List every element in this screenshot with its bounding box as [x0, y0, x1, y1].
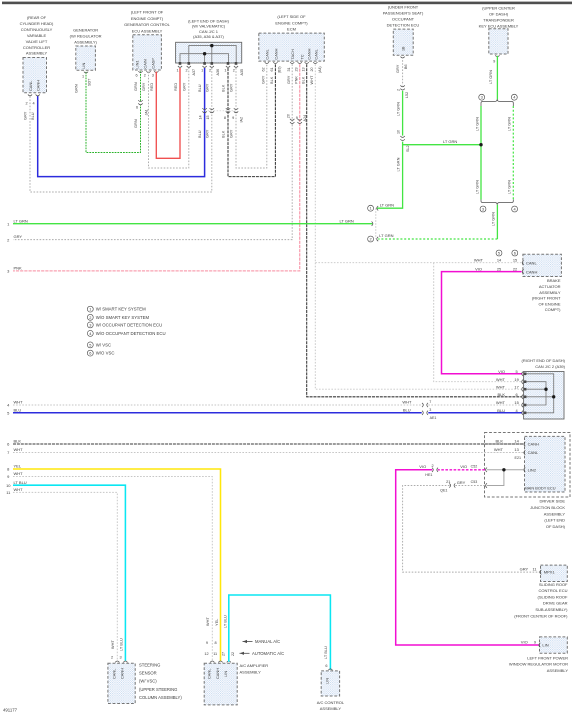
AC amp pin label CANH [215, 668, 220, 679]
GCE pin number 2 [144, 74, 146, 78]
svg-text:9: 9 [206, 641, 208, 645]
svg-text:MAIN BODY ECU: MAIN BODY ECU [524, 485, 555, 490]
wire WHT branch to brake actuator CANL [315, 262, 521, 264]
sliding roof pin connector [540, 570, 542, 574]
MBE pin label CANH [528, 442, 539, 447]
wire BLK ECM 13 to CAN J/C2 pin 6 [307, 64, 523, 397]
connector name IA2 [239, 117, 243, 123]
wire LIN2 internal [487, 470, 524, 486]
svg-text:W/ SMART KEY SYSTEM: W/ SMART KEY SYSTEM [96, 307, 146, 312]
svg-text:GRY: GRY [457, 480, 466, 485]
svg-text:9: 9 [232, 116, 234, 120]
svg-text:(UPPER CENTER: (UPPER CENTER [482, 6, 515, 11]
wire GRN generator LIN to GCE LIN1 [86, 71, 141, 152]
circled 3 ladder bottom left [480, 206, 486, 212]
wire 2 label GRY [14, 234, 23, 239]
svg-text:TACH: TACH [290, 49, 295, 59]
wire LT GRN ladder merge down [496, 205, 498, 239]
AC amp pin number 11 [213, 652, 217, 656]
label WHT steering [110, 640, 115, 649]
svg-text:(LEFT SIDE OF: (LEFT SIDE OF [277, 14, 306, 19]
svg-text:W/O VSC: W/O VSC [96, 351, 115, 356]
diagram number [3, 708, 18, 713]
wire LT GRN ladder right dashed [512, 106, 514, 200]
ODECU pin label [402, 46, 406, 51]
wire 1 end connector [372, 222, 373, 226]
label LT GRN ODECU lower [395, 157, 400, 171]
window regulator motor box [540, 637, 568, 653]
svg-text:CANH: CANH [120, 668, 125, 679]
svg-text:GENERATOR: GENERATOR [73, 28, 98, 33]
circled 1 variant [368, 205, 374, 211]
svg-text:A37: A37 [192, 69, 196, 76]
wire 9 WHT [13, 477, 212, 662]
svg-text:LT GRN: LT GRN [507, 180, 512, 194]
svg-text:25: 25 [497, 266, 501, 271]
label GRY CVVL wire [23, 111, 28, 120]
AC amp pin number 22 [231, 652, 235, 656]
svg-text:DETECTION ECU: DETECTION ECU [387, 22, 420, 27]
label GRY sliding roof [520, 567, 529, 572]
svg-text:WHT: WHT [110, 640, 115, 649]
window regulator pin 9 [534, 639, 536, 644]
svg-text:61: 61 [270, 67, 274, 71]
connector name AE1 [430, 416, 437, 420]
wire PNK ECM 23 to row 3 [13, 64, 300, 271]
wire 10 label LT BLU [14, 480, 27, 485]
automatic AC label [252, 651, 284, 656]
svg-text:TRANSPONDER: TRANSPONDER [483, 18, 514, 23]
svg-text:6: 6 [516, 392, 518, 397]
svg-text:IA2: IA2 [239, 117, 243, 123]
connector name SL2 [406, 145, 410, 152]
wire 4 WHT [13, 404, 522, 406]
svg-text:CAN J/C 2 (A39): CAN J/C 2 (A39) [535, 364, 565, 369]
brake CANH pin 25 [497, 266, 501, 271]
wire WHT branch to CAN J/C2 pin 19 [434, 263, 523, 382]
wire LT GRN ODECU chain down [377, 91, 403, 208]
svg-text:W/ VSC: W/ VSC [96, 342, 111, 347]
svg-text:31: 31 [287, 67, 291, 71]
label GRN below JA1 [133, 119, 138, 128]
svg-text:HE1: HE1 [425, 473, 432, 477]
svg-text:GRN: GRN [74, 84, 79, 93]
transponder pin connector [495, 55, 499, 56]
AC amp pin number 9 [206, 641, 208, 645]
sliding roof pin 11 [532, 567, 536, 572]
svg-text:COMPT): COMPT) [545, 307, 561, 312]
svg-text:CONTROL ECU: CONTROL ECU [539, 588, 568, 593]
legend [87, 306, 165, 356]
connector SL2 pin 10 [396, 130, 400, 134]
svg-text:ECU ASSEMBLY: ECU ASSEMBLY [132, 28, 163, 33]
svg-text:TC: TC [300, 54, 305, 59]
svg-text:STEERING: STEERING [139, 662, 160, 667]
svg-text:ASSEMBLY: ASSEMBLY [544, 511, 566, 516]
AC control pin label LIN [325, 678, 330, 684]
connector QE1 [449, 483, 455, 487]
circled 5 brake [496, 250, 502, 256]
wire 4 label WHT near connector [402, 400, 412, 405]
svg-text:BLU: BLU [497, 408, 505, 413]
svg-text:6: 6 [136, 106, 138, 110]
wire GRY ECM 31 to row 2 [13, 64, 292, 239]
window regulator pin label LIN [542, 643, 548, 648]
svg-text:1: 1 [89, 307, 91, 312]
svg-text:13: 13 [301, 67, 305, 71]
label VIO left of HE1 [419, 464, 426, 469]
svg-text:ASSEMBLY: ASSEMBLY [320, 706, 342, 711]
svg-text:ENGINE COMPT): ENGINE COMPT) [275, 20, 308, 25]
svg-text:QE1: QE1 [440, 489, 447, 493]
wire 5 number [7, 411, 10, 416]
svg-text:GRY: GRY [520, 567, 529, 572]
svg-text:CANL: CANL [264, 48, 269, 59]
svg-text:LT GRN: LT GRN [443, 139, 457, 144]
wire 9 label WHT [14, 471, 24, 476]
connector A24 on PNK wire [298, 119, 302, 124]
svg-text:COLUMN ASSEMBLY): COLUMN ASSEMBLY) [139, 695, 182, 700]
connector IA2 pin 15 [206, 115, 210, 119]
svg-text:14: 14 [199, 115, 203, 119]
svg-text:BLK: BLK [497, 392, 505, 397]
connector QE1 pin 21 [446, 480, 450, 484]
svg-text:DRIVE GEAR: DRIVE GEAR [543, 601, 568, 606]
svg-text:RED: RED [149, 83, 154, 91]
wire 1 label LT GRN [14, 218, 28, 223]
svg-text:VIO: VIO [498, 369, 505, 374]
svg-text:LT GRN: LT GRN [380, 203, 394, 208]
wire 11 WHT [13, 492, 117, 660]
svg-text:WHT: WHT [14, 400, 24, 405]
svg-text:BLK: BLK [221, 130, 226, 138]
svg-text:5: 5 [498, 251, 500, 256]
label B6 [404, 64, 408, 69]
sliding roof ECU title [514, 582, 568, 619]
svg-text:KEY ECU ASSEMBLY: KEY ECU ASSEMBLY [479, 24, 519, 29]
wire GRY CAN J/C1 A35-2 to ECM CANL 62 [236, 64, 267, 168]
svg-text:(A4): (A4) [318, 66, 322, 73]
AC amp pin number 12 [204, 652, 208, 656]
svg-text:BLU: BLU [30, 112, 35, 120]
svg-text:C52: C52 [471, 464, 478, 468]
in-line connector IA2 tie line [205, 110, 236, 112]
window regulator title [509, 655, 568, 673]
svg-text:SL2: SL2 [406, 145, 410, 152]
wire 10 number [6, 483, 11, 488]
svg-text:(B3): (B3) [277, 66, 281, 73]
svg-text:10: 10 [6, 483, 11, 488]
connector IA2 pin 8 [224, 116, 226, 120]
wire LT BLU AC amp LIN to AC control [229, 595, 331, 670]
brake pin label CANL [526, 260, 537, 265]
connector name A24 [303, 115, 307, 122]
svg-text:8: 8 [215, 641, 217, 645]
svg-text:WHT: WHT [402, 400, 412, 405]
svg-text:DRIVER SIDE: DRIVER SIDE [539, 499, 565, 504]
svg-text:WHT: WHT [309, 75, 314, 84]
wire VIO brake CANH to CAN J/C2 pin 5 [442, 272, 523, 374]
svg-text:CANH: CANH [215, 668, 220, 679]
svg-text:GRY: GRY [14, 234, 23, 239]
brake actuator title [532, 278, 561, 312]
CAN J/C 2 middle bus pins 2-5 [526, 382, 546, 405]
circled 4 ladder bottom right [512, 206, 518, 212]
ECM box [259, 33, 325, 61]
wire 4 number [7, 403, 10, 408]
svg-text:2: 2 [370, 237, 372, 242]
wire LT GRN ladder left [480, 106, 482, 200]
wire LT GRN tap to ladder [403, 144, 481, 146]
svg-text:WHT: WHT [496, 377, 506, 382]
svg-text:VIO: VIO [521, 639, 528, 644]
svg-text:B6: B6 [404, 64, 408, 69]
svg-text:JUNCTION BLOCK: JUNCTION BLOCK [530, 505, 565, 510]
svg-text:GRN: GRN [133, 82, 138, 91]
svg-text:WHT: WHT [14, 487, 24, 492]
label E21 [515, 456, 522, 460]
svg-text:GRY: GRY [286, 75, 291, 84]
main body ECU label [524, 485, 555, 490]
GCE pin label LIN1 [135, 60, 140, 68]
CAN J/C 2 stub pin 3 [526, 388, 548, 391]
svg-text:11: 11 [532, 567, 536, 572]
label GRY below A35 pin 2 [229, 83, 234, 92]
svg-text:3: 3 [482, 207, 484, 212]
CAN J/C 1 box [176, 42, 242, 63]
svg-text:CONTROLLER: CONTROLLER [23, 45, 50, 50]
label VIO window [521, 639, 528, 644]
connector IA2 pin 9 [232, 116, 234, 120]
wire VIO to window regulator [396, 470, 539, 645]
label LT GRN ladder left upper [474, 117, 479, 131]
svg-text:GRY: GRY [205, 83, 210, 92]
label C52 [471, 464, 478, 468]
svg-text:(LEFT END: (LEFT END [544, 518, 565, 523]
occupant detection ECU box [393, 29, 413, 55]
wire 8 YEL [13, 469, 221, 662]
GCE LIN1 pin connector [138, 71, 142, 72]
wire 11 number [6, 490, 11, 495]
svg-text:LT GRN: LT GRN [14, 218, 28, 223]
wire 2 number [7, 237, 10, 242]
label BLK below IA2 [221, 130, 226, 138]
label LT GRN transponder [488, 70, 493, 84]
CAN J/C 2 pin terminals [522, 372, 527, 415]
ladder top bracket [481, 99, 513, 106]
svg-text:13: 13 [514, 447, 518, 452]
CVVL pin label CANL [28, 80, 33, 91]
svg-text:23: 23 [294, 67, 298, 71]
svg-text:LIN: LIN [81, 63, 86, 69]
wire GRY GCE CAIN to CAN J/C1 A37-2 [149, 68, 189, 168]
CAN J/C 2 outer bus pins 1-6 [526, 374, 554, 413]
svg-text:1: 1 [224, 69, 226, 73]
CAN J/C 2 stub pin 4 [526, 395, 555, 398]
brake pin label CANH [526, 269, 537, 274]
generator pin label LIN [81, 63, 86, 69]
svg-text:BRAKE: BRAKE [547, 278, 561, 283]
connector IA2 pin 14 [199, 115, 203, 119]
label VIO C52 right [460, 464, 467, 469]
svg-text:WHT: WHT [205, 617, 210, 626]
wire 6 label BLK [14, 439, 22, 444]
label GRN generator wire [74, 84, 79, 93]
connector L52 pin 2 [396, 89, 400, 91]
label LT GRN ladder right upper [507, 117, 512, 131]
connector JA1 pin number 6 [136, 106, 138, 110]
wire RED GCE CASP to CAN J/C1 A37-1 [156, 68, 180, 158]
svg-text:SENSOR: SENSOR [139, 670, 157, 675]
wire 3 number [7, 269, 10, 274]
svg-text:GRY: GRY [181, 82, 186, 91]
svg-text:RED: RED [173, 83, 178, 91]
svg-text:10: 10 [396, 130, 400, 134]
svg-text:LT GRN: LT GRN [488, 70, 493, 84]
svg-text:SDT: SDT [88, 78, 92, 86]
wire 6 number [7, 442, 10, 447]
CVVL pin label CANH [36, 80, 41, 91]
connector A24 pin 20 [286, 114, 290, 118]
svg-text:AE1: AE1 [430, 416, 437, 420]
label BLU below IA2 [197, 130, 202, 138]
wire 7 label WHT right [494, 447, 504, 452]
CVVL pin number 4 [33, 102, 35, 106]
svg-text:GENERATOR CONTROL: GENERATOR CONTROL [124, 22, 170, 27]
steering pin label CANH [120, 668, 125, 679]
svg-text:LT GRN: LT GRN [507, 117, 512, 131]
svg-text:BLU: BLU [197, 84, 202, 92]
svg-text:A/C AMPLIFIER: A/C AMPLIFIER [240, 663, 269, 668]
svg-text:2: 2 [432, 464, 434, 468]
AC amp CANH pin connector [218, 661, 222, 662]
label LT GRN ladder right lower [507, 180, 512, 194]
svg-text:(REAR OF: (REAR OF [27, 15, 47, 20]
svg-text:BLU: BLU [197, 130, 202, 138]
svg-text:BLU: BLU [403, 408, 411, 413]
steering CANH pin connector [123, 661, 127, 662]
brake CANH pin 22 [513, 266, 517, 271]
svg-text:LT BLU: LT BLU [118, 638, 123, 651]
wire 7 label WHT [14, 447, 24, 452]
occupant detection ECU title [383, 5, 424, 28]
AC amp CANL pin connector [210, 661, 214, 662]
AC amp pin number 27 [221, 652, 225, 656]
svg-text:6: 6 [514, 251, 516, 256]
svg-text:BLK: BLK [221, 84, 226, 92]
svg-text:GRN: GRN [133, 119, 138, 128]
MBE CANL pin connector [524, 450, 526, 454]
svg-text:YEL: YEL [214, 618, 219, 626]
svg-text:AUTOMATIC A/C: AUTOMATIC A/C [252, 651, 284, 656]
connector AE1 pin 3 [429, 408, 431, 412]
wire 6 BLK [13, 443, 524, 445]
svg-text:2: 2 [209, 69, 211, 73]
svg-text:6: 6 [325, 664, 327, 668]
svg-text:LT GRN: LT GRN [474, 180, 479, 194]
ECM pin numbers and wire labels [261, 66, 322, 73]
svg-text:1: 1 [201, 69, 203, 73]
svg-text:15: 15 [514, 400, 518, 405]
connector IA2 on BLK wire [226, 108, 230, 113]
brake CANL wire label WHT [474, 257, 484, 262]
svg-text:E21: E21 [515, 456, 522, 460]
label C53 [471, 480, 478, 484]
connector L52 [400, 85, 404, 90]
brake CANH pin connector [522, 269, 524, 273]
AC amp pin label LIN [223, 671, 228, 677]
svg-text:LIN: LIN [223, 671, 228, 677]
svg-text:CANL: CANL [112, 668, 117, 679]
junction dot LIN2 [502, 468, 505, 471]
svg-text:W/ OCCUPANT DETECTION ECU: W/ OCCUPANT DETECTION ECU [96, 322, 162, 327]
svg-text:27: 27 [221, 652, 225, 656]
label GRY below IA2 [205, 129, 210, 138]
svg-text:2: 2 [111, 656, 113, 660]
connector AE1 pin 7 [429, 400, 431, 404]
svg-text:WHT: WHT [496, 400, 506, 405]
svg-text:20: 20 [286, 114, 290, 118]
svg-text:MANUAL A/C: MANUAL A/C [255, 639, 280, 644]
junction dot ladder [479, 143, 482, 146]
circled 2 variant [368, 236, 374, 242]
svg-text:LT GRN: LT GRN [490, 212, 495, 226]
label GRY below A36 pin 2 [205, 83, 210, 92]
svg-text:19: 19 [514, 377, 518, 382]
wire 1 label LT GRN right [340, 218, 354, 223]
svg-text:PNK: PNK [294, 76, 299, 84]
connector IA2 on GRY wire 2 [234, 108, 238, 113]
sliding roof pin label MPX1 [544, 570, 556, 575]
svg-text:CYLINDER HEAD): CYLINDER HEAD) [20, 21, 54, 26]
window regulator pin connector [539, 643, 541, 647]
connector IA2 on BLU wire [202, 108, 206, 113]
label BLU below A36 pin 1 [197, 84, 202, 92]
CVVL pin number 2 [26, 102, 28, 106]
svg-text:LT GRN: LT GRN [340, 218, 354, 223]
A/C amplifier box [204, 663, 237, 705]
svg-text:2: 2 [186, 69, 188, 73]
MBE CANH pin connector [524, 442, 526, 446]
svg-text:CANL: CANL [207, 668, 212, 679]
circled 3 ladder top left [479, 94, 485, 100]
svg-text:62: 62 [261, 67, 265, 71]
brake actuator box [523, 254, 562, 276]
svg-text:VIO: VIO [460, 464, 467, 469]
svg-text:YEL: YEL [14, 464, 22, 469]
wire WHT ECM 20 to CAN J/C2 pin 17 [315, 64, 522, 389]
ECM pin labels [264, 48, 318, 59]
generator box [76, 46, 96, 70]
svg-text:12: 12 [204, 652, 208, 656]
wire GRY ODECU to connector L52 [402, 57, 404, 85]
svg-text:VIO: VIO [419, 464, 426, 469]
svg-text:11: 11 [213, 652, 217, 656]
label LT BLU steering [118, 638, 123, 651]
svg-text:22: 22 [513, 266, 517, 271]
wire 6 label BLK right [495, 439, 503, 444]
svg-text:LT BLU: LT BLU [323, 646, 328, 659]
svg-text:WHT: WHT [474, 257, 484, 262]
driver side junction block outer box [485, 433, 571, 498]
svg-text:6: 6 [136, 74, 138, 78]
driver side junction block title [530, 499, 566, 530]
svg-text:PASSENGER'S SEAT): PASSENGER'S SEAT) [383, 11, 424, 16]
svg-text:5: 5 [516, 369, 518, 374]
wire 10 LT BLU [13, 485, 125, 661]
wire 7 number [7, 450, 10, 455]
GCE pin number 6 [136, 74, 138, 78]
